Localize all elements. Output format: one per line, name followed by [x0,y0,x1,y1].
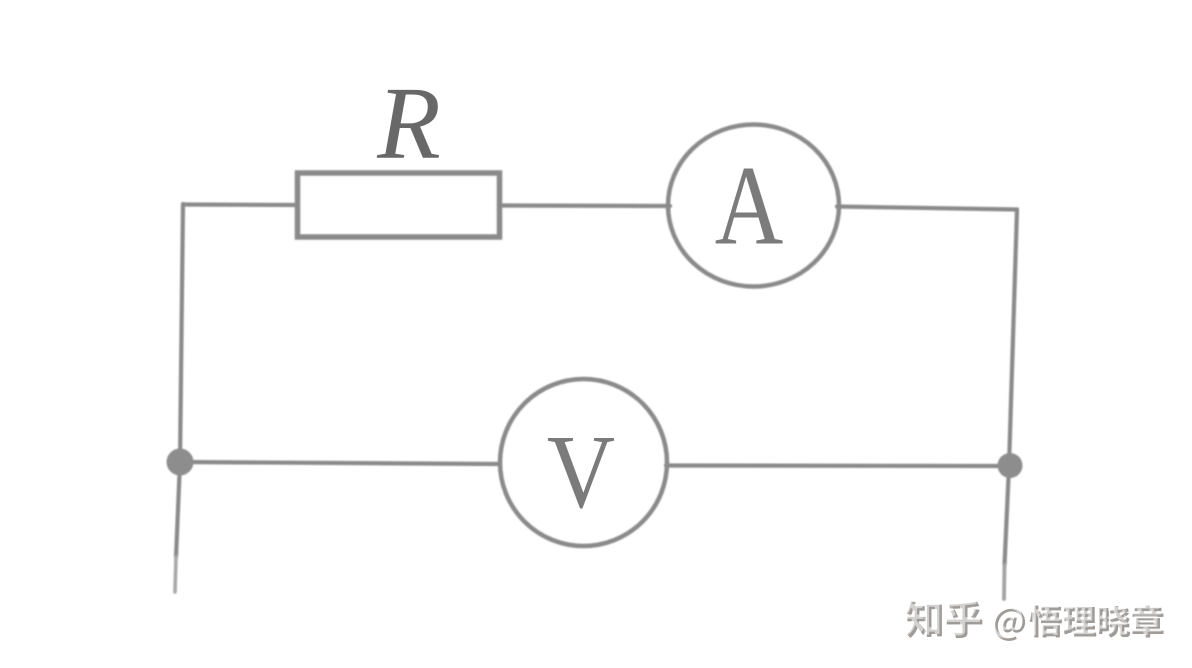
svg-text:A: A [715,143,784,269]
svg-text:R: R [376,66,441,181]
svg-text:V: V [547,413,615,530]
